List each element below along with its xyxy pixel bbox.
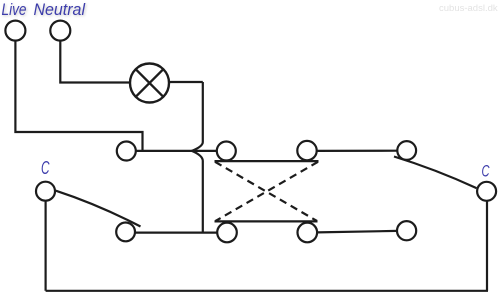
terminal SW1 common [36, 182, 55, 201]
svg-text:Live: Live [2, 0, 27, 19]
svg-text:C: C [482, 162, 490, 181]
wire L1 line [136, 150, 217, 152]
switch blade SW1 [56, 191, 141, 227]
terminal Neutral [50, 21, 70, 41]
terminal SW2 common [477, 182, 496, 201]
wire lamp right [169, 81, 203, 83]
wire bottom-left horizontal [135, 232, 218, 234]
wire lamp drop with hop [192, 82, 203, 233]
terminal intermediate TR [297, 141, 316, 160]
label shadow [3, 1, 88, 20]
terminal intermediate BR [298, 223, 318, 243]
wire neutral to lamp [60, 40, 130, 83]
intermediate dashed link B [216, 162, 319, 221]
wire bottom rail [46, 290, 488, 292]
wire intermediate to right L1 [317, 150, 398, 152]
switch blade SW2 [394, 157, 477, 189]
intermediate solid link top [215, 160, 319, 162]
intermediate solid link bottom [215, 220, 318, 222]
svg-text:Neutral: Neutral [34, 0, 87, 19]
terminal SW2 L1 [397, 141, 416, 160]
terminal SW2 L2 [397, 221, 416, 240]
wire intermediate to right L2 [317, 231, 397, 233]
wire right common drop [486, 201, 488, 291]
terminal intermediate TL [217, 142, 236, 161]
intermediate dashed link A [215, 162, 317, 221]
terminal intermediate BL [217, 223, 237, 243]
terminal Live [5, 21, 25, 41]
wire live feed [15, 40, 142, 151]
svg-text:cubus-adsl.dk: cubus-adsl.dk [439, 3, 498, 14]
svg-text:C: C [41, 158, 50, 178]
wire left common drop [44, 201, 46, 291]
terminal SW1 L1 [117, 142, 136, 161]
lamp [130, 64, 169, 103]
terminal SW1 L2 [116, 223, 135, 242]
